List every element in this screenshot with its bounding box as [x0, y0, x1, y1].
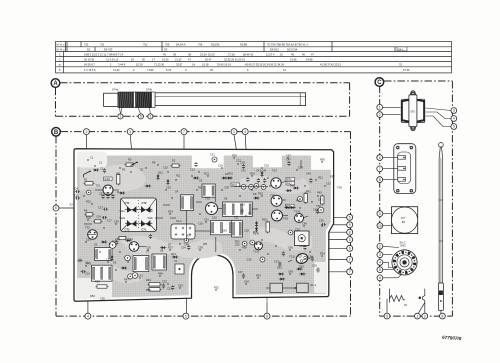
- trimmer E3: [254, 183, 259, 188]
- loudspeaker S77: [392, 207, 418, 234]
- svg-text:C39: C39: [240, 161, 245, 165]
- svg-text:R21: R21: [318, 176, 323, 180]
- resistor R44: [119, 237, 126, 240]
- svg-text:D9 D12: D9 D12: [270, 47, 279, 51]
- svg-text:C65: C65: [288, 270, 293, 274]
- capacitor C11: [194, 162, 197, 167]
- diode D10: [127, 239, 130, 242]
- terminal on C left border 10: [377, 260, 383, 266]
- svg-text:S11: S11: [234, 216, 239, 220]
- transistor TS3: [129, 242, 139, 252]
- svg-text:7: 7: [183, 130, 185, 134]
- leader from left terminal 6: [59, 207, 90, 209]
- svg-text:1: 1: [379, 106, 381, 110]
- diode D14: [255, 222, 258, 225]
- printed circuit board outline: [74, 149, 334, 301]
- svg-text:7D 75A 75B-3B 75A 5A-B 75A V: 7D 75A 75B-3B 75A 5A-B 75A VL-1: [267, 42, 309, 46]
- terminal 5 of rod: [138, 114, 143, 119]
- svg-text:C63: C63: [178, 284, 183, 288]
- svg-text:C61: C61: [106, 258, 111, 262]
- svg-text:8: 8: [441, 314, 443, 318]
- terminal 3 on top border: [127, 129, 133, 135]
- leader to bottom terminal 5: [185, 246, 187, 313]
- section A chain border left: [55, 88, 57, 117]
- svg-text:23.24, 25.29: 23.24, 25.29: [200, 52, 215, 56]
- resistor R2: [172, 164, 179, 167]
- diode D13: [173, 256, 176, 259]
- trimmer E5: [212, 157, 217, 162]
- extra reference labels: [86, 154, 331, 290]
- svg-text:5: 5: [453, 125, 455, 129]
- svg-text:R54: R54: [320, 252, 325, 256]
- svg-text:9: 9: [379, 212, 381, 216]
- trimmer R46: [128, 274, 133, 279]
- capacitor C33: [162, 283, 165, 288]
- leads from connector: [383, 156, 398, 158]
- svg-text:6: 6: [379, 276, 381, 280]
- trimmer E8: [242, 241, 247, 246]
- svg-text:1: 1: [119, 115, 121, 119]
- svg-text:41.38.37.42.23.12: 41.38.37.42.23.12: [320, 63, 341, 67]
- capacitor C8: [106, 194, 109, 199]
- svg-text:8: 8: [349, 230, 351, 234]
- svg-text:SK2: SK2: [222, 229, 227, 233]
- svg-text:D3: D3: [164, 47, 168, 51]
- section C chain border bottom: [380, 315, 453, 317]
- capacitor C9: [101, 194, 104, 199]
- diode D22: [111, 256, 114, 259]
- svg-text:S76: S76: [410, 110, 415, 114]
- svg-text:C13: C13: [98, 206, 103, 210]
- svg-text:C9: C9: [99, 192, 103, 196]
- terminal on C right border 2: [451, 116, 457, 122]
- svg-text:M2: M2: [186, 234, 190, 238]
- svg-text:8Ω: 8Ω: [402, 220, 405, 224]
- diode D23: [122, 267, 125, 270]
- capacitor C2: [103, 168, 106, 173]
- svg-text:1: 1: [233, 130, 235, 134]
- svg-text:MHz: MHz: [57, 48, 66, 52]
- rotary switch SK-C: [392, 250, 417, 275]
- svg-text:19.20: 19.20: [162, 57, 169, 61]
- resistor R41: [304, 194, 307, 203]
- terminal 7 on top border: [181, 129, 187, 135]
- svg-text:2: 2: [424, 314, 426, 318]
- svg-text:C7L: C7L: [142, 227, 147, 231]
- resistor R42 label: [286, 181, 295, 185]
- trimmer C16b: [109, 242, 116, 249]
- leader from terminal 4: [245, 135, 247, 178]
- svg-text:D10/29: D10/29: [211, 42, 220, 46]
- capacitor C4: [75, 190, 80, 193]
- svg-text:D9: D9: [253, 192, 257, 196]
- battery 9V with resistor symbol: [387, 289, 405, 313]
- svg-text:TS12: TS12: [253, 250, 260, 254]
- svg-text:37 36: 37 36: [403, 68, 410, 72]
- svg-text:R1: R1: [84, 178, 88, 182]
- capacitor C56: [311, 256, 314, 261]
- terminal on C left border 1: [377, 104, 383, 110]
- trimmer R30: [260, 257, 265, 262]
- table row 5 entries: [84, 63, 402, 67]
- svg-text:S: S: [59, 68, 61, 72]
- capacitor C45: [316, 209, 319, 214]
- section A chain border right: [349, 83, 351, 117]
- svg-text:R2: R2: [122, 168, 126, 172]
- svg-text:R57: R57: [330, 175, 335, 179]
- terminal 1b of rod: [148, 114, 153, 119]
- svg-text:1: 1: [149, 115, 151, 119]
- IF transformer S3: [202, 184, 215, 197]
- section C chain border left: [379, 86, 381, 317]
- svg-text:71.13.30: 71.13.30: [154, 63, 165, 67]
- terminal 5 on bottom border: [183, 313, 189, 319]
- svg-text:D53: D53: [299, 265, 304, 269]
- svg-text:R5: R5: [128, 158, 132, 162]
- part M31 label: [231, 183, 240, 187]
- capacitor C27: [149, 234, 152, 239]
- svg-text:C4: C4: [75, 187, 79, 191]
- capacitor C18: [102, 216, 107, 219]
- svg-text:54.28 8.7: 54.28 8.7: [84, 63, 95, 67]
- svg-text:D4,54-A: D4,54-A: [176, 42, 186, 46]
- svg-text:C28: C28: [244, 229, 249, 233]
- transistor TS9: [272, 210, 283, 221]
- svg-text:W2b: W2b: [148, 216, 154, 220]
- svg-text:W1b: W1b: [148, 209, 154, 213]
- svg-text:S6: S6: [113, 261, 117, 265]
- transistor TS10: [295, 214, 304, 223]
- IF transformer S7: [133, 256, 149, 272]
- leader from terminal 1: [234, 135, 240, 173]
- svg-text:S3: S3: [70, 203, 74, 207]
- svg-text:C53: C53: [295, 228, 300, 232]
- svg-text:S4-A: S4-A: [176, 219, 182, 223]
- svg-text:CT1: CT1: [125, 201, 130, 205]
- resistor R35: [266, 222, 270, 232]
- diode D48: [287, 189, 290, 192]
- diode D3: [102, 241, 105, 244]
- terminal on C bottom border 4: [440, 313, 446, 319]
- section C chain border right: [451, 81, 453, 316]
- svg-text:C18: C18: [96, 215, 101, 219]
- resistor R39 label: [286, 204, 295, 208]
- terminal on C left border 9: [377, 252, 383, 258]
- svg-text:CT2: CT2: [142, 201, 147, 205]
- diode D12: [157, 175, 160, 178]
- svg-text:R24: R24: [198, 186, 203, 190]
- svg-text:A: A: [53, 81, 58, 87]
- diode D1: [223, 177, 226, 180]
- leader to bottom terminal 8: [266, 302, 268, 314]
- trimmer E2: [249, 185, 254, 190]
- press stud contact: [419, 289, 425, 313]
- table row 3 entries: [84, 52, 314, 56]
- svg-text:R47: R47: [124, 278, 129, 282]
- svg-text:RL-1: RL-1: [311, 283, 317, 287]
- diode D19: [194, 177, 197, 180]
- svg-text:TS2: TS2: [85, 226, 90, 230]
- svg-text:8: 8: [266, 314, 268, 318]
- svg-text:TS10: TS10: [294, 210, 301, 214]
- capacitor C42: [246, 177, 249, 182]
- svg-text:R52: R52: [214, 286, 219, 290]
- svg-text:R45: R45: [317, 191, 322, 195]
- svg-text:R40: R40: [296, 199, 301, 203]
- svg-text:R18: R18: [250, 172, 255, 176]
- svg-text:C: C: [59, 53, 61, 57]
- terminal 2 on top border: [83, 129, 89, 135]
- svg-text:W2B: W2B: [104, 177, 110, 181]
- resistor R32 label: [286, 177, 295, 181]
- svg-text:C2: C2: [100, 167, 104, 171]
- resistor R5: [126, 163, 133, 166]
- svg-text:10: 10: [378, 224, 382, 228]
- section label C: [375, 78, 384, 87]
- section B chain border bottom: [56, 315, 351, 317]
- diode D8: [291, 206, 294, 209]
- terminal 8 on bottom border: [264, 313, 270, 319]
- svg-text:R13: R13: [204, 172, 209, 176]
- svg-text:C37: C37: [238, 270, 243, 274]
- table row 4 entries: [84, 57, 313, 61]
- trimmer C53: [295, 231, 310, 246]
- capacitor C39: [242, 164, 245, 169]
- svg-text:C10: C10: [163, 166, 168, 170]
- terminal on C left border 6: [377, 211, 383, 217]
- leader from terminal 3: [130, 134, 133, 163]
- svg-text:TS7: TS7: [272, 169, 277, 173]
- trimmer R40: [297, 196, 302, 201]
- svg-text:15.18: 15.18: [202, 63, 209, 67]
- svg-text:751: 751: [100, 42, 105, 46]
- svg-text:752: 752: [84, 42, 89, 46]
- svg-text:R22: R22: [86, 200, 91, 204]
- svg-text:S74a: S74a: [112, 88, 119, 92]
- table row 6 entries: [84, 68, 410, 72]
- PCB halftone copper area: [77, 156, 331, 299]
- svg-text:R3: R3: [117, 172, 121, 176]
- terminal on C bottom border 1: [384, 313, 390, 319]
- trimmer E1: [241, 184, 246, 189]
- svg-text:C60: C60: [288, 246, 293, 250]
- terminal 2 on right border: [347, 256, 353, 262]
- adjustment data table: [56, 42, 452, 73]
- svg-text:C22: C22: [236, 159, 241, 163]
- svg-text:C56: C56: [308, 255, 313, 259]
- svg-text:1 3 16 5 6: 1 3 16 5 6: [84, 68, 96, 72]
- svg-text:C32: C32: [326, 182, 331, 186]
- terminal 4 on top border: [242, 129, 248, 135]
- leader from terminal 2 to switch S1: [85, 135, 87, 172]
- table row 1 entries: [84, 42, 309, 46]
- svg-text:3: 3: [453, 109, 455, 113]
- section A chain border bottom: [56, 115, 350, 117]
- svg-text:R31: R31: [248, 212, 253, 216]
- svg-text:C54: C54: [299, 244, 304, 248]
- svg-text:D50: D50: [90, 294, 95, 298]
- svg-text:R34: R34: [112, 240, 117, 244]
- svg-text:756: 756: [198, 42, 203, 46]
- svg-text:C31: C31: [210, 153, 215, 157]
- svg-text:C53: C53: [86, 238, 91, 242]
- terminal 8 on right border: [347, 229, 353, 235]
- svg-text:8 75: 8 75: [166, 68, 172, 72]
- svg-text:C67: C67: [286, 154, 291, 158]
- svg-text:C1: C1: [99, 161, 103, 165]
- svg-text:R11: R11: [176, 174, 181, 178]
- terminal on C right border 3: [451, 124, 457, 130]
- svg-text:C15: C15: [190, 168, 195, 172]
- section B chain border left: [55, 136, 57, 316]
- leader to bottom terminal 4: [87, 289, 89, 313]
- svg-text:4 144: 4 144: [113, 68, 120, 72]
- svg-text:8: 8: [379, 178, 381, 182]
- transistor TS8: [271, 195, 282, 206]
- svg-text:S77: S77: [401, 216, 406, 220]
- terminal on C left border 8: [377, 243, 383, 249]
- svg-text:C42: C42: [241, 169, 246, 173]
- capacitor C57: [278, 261, 281, 266]
- svg-text:C25: C25: [264, 164, 269, 168]
- diode D21: [294, 187, 297, 190]
- transistor TS5: [206, 203, 218, 215]
- svg-text:R53: R53: [256, 274, 261, 278]
- svg-text:S9: S9: [224, 197, 228, 201]
- svg-text:C7: C7: [109, 192, 113, 196]
- leader to right terminal 6: [320, 247, 347, 249]
- svg-text:R41: R41: [306, 190, 311, 194]
- terminal 5 on right border: [347, 214, 353, 220]
- capacitor C50: [321, 223, 326, 226]
- capacitor C7: [111, 194, 114, 199]
- antenna coil S74b bobbin: [136, 92, 152, 108]
- trimmer TS6: [318, 207, 324, 213]
- svg-text:MHz: MHz: [57, 43, 66, 47]
- svg-text:R35: R35: [262, 218, 267, 222]
- svg-text:C45: C45: [114, 220, 119, 224]
- leader from terminal 7: [183, 134, 185, 196]
- svg-text:5.88 3 10.8 2 13 11.7 WH6-8 T: 5.88 3 10.8 2 13 11.7 WH6-8 T1-4: [84, 52, 124, 56]
- terminal 6 on left border: [53, 205, 59, 211]
- svg-text:X1: X1: [174, 259, 178, 263]
- svg-text:S74b: S74b: [146, 87, 153, 91]
- svg-text:TS6: TS6: [316, 204, 321, 208]
- svg-text:W2a: W2a: [120, 216, 126, 220]
- svg-text:R16: R16: [228, 172, 233, 176]
- svg-text:12.4,16.15: 12.4,16.15: [106, 57, 119, 61]
- svg-text:10 29: 10 29: [136, 63, 143, 67]
- terminal on C left border 5: [377, 177, 383, 183]
- svg-text:R28: R28: [86, 216, 91, 220]
- switch S1: [84, 172, 90, 175]
- svg-text:W1a: W1a: [120, 209, 126, 213]
- terminal on C left border 2: [377, 112, 383, 118]
- svg-text:S3: S3: [199, 179, 203, 183]
- svg-text:R37: R37: [168, 246, 173, 250]
- leads from transformer left: [383, 106, 401, 108]
- resistor R6: [86, 213, 93, 216]
- svg-text:C26: C26: [198, 222, 203, 226]
- svg-text:7: 7: [379, 167, 381, 171]
- svg-text:C52: C52: [312, 264, 317, 268]
- svg-text:C45: C45: [313, 208, 318, 212]
- tuning gang capacitor CT1/CT2: [121, 198, 157, 232]
- capacitor C24: [115, 240, 118, 245]
- ferrite rod left end cap: [104, 93, 118, 106]
- svg-text:9V: 9V: [404, 303, 407, 307]
- diode D15: [255, 228, 258, 231]
- svg-text:C36: C36: [247, 258, 252, 262]
- antenna coil S74a bobbin: [118, 92, 155, 108]
- capacitor C16: [81, 270, 86, 273]
- terminal on C bottom border 3: [422, 313, 428, 319]
- svg-text:755: 755: [165, 42, 170, 46]
- svg-text:C1: C1: [90, 156, 94, 160]
- transistor TS7: [271, 178, 281, 188]
- svg-text:TS9: TS9: [283, 217, 288, 221]
- svg-text:C59: C59: [198, 246, 203, 250]
- IF transformer S5: [95, 248, 113, 261]
- svg-text:TS5: TS5: [205, 197, 210, 201]
- svg-text:2: 2: [379, 113, 381, 117]
- svg-text:5: 5: [140, 115, 142, 119]
- white board cutouts: [76, 152, 327, 300]
- svg-text:B: B: [54, 130, 59, 136]
- leader wires from coils: [119, 108, 122, 114]
- capacitor C43: [257, 178, 260, 183]
- trimmer C48b: [125, 255, 131, 261]
- terminal 9 on right border: [347, 222, 353, 228]
- diode D51: [279, 273, 282, 276]
- terminal on C left border 11: [377, 267, 383, 273]
- leader to right terminal 8: [326, 231, 347, 233]
- svg-text:9: 9: [349, 223, 351, 227]
- diode D54: [301, 273, 304, 276]
- IF transformer S11: [231, 221, 242, 238]
- svg-text:7: 7: [349, 270, 351, 274]
- svg-text:C41: C41: [318, 198, 323, 202]
- svg-text:58 49 42: 58 49 42: [243, 52, 254, 56]
- capacitor C48: [187, 245, 190, 250]
- capacitor C44: [263, 178, 266, 183]
- svg-text:D13: D13: [171, 252, 176, 256]
- terminal on C right border 1: [451, 108, 457, 114]
- svg-text:4: 4: [87, 314, 89, 318]
- leads from transformer right: [426, 108, 452, 111]
- diode D9: [255, 197, 258, 200]
- diode D16: [94, 169, 97, 172]
- filter block FL-1: [270, 283, 282, 292]
- svg-text:2: 2: [349, 258, 351, 262]
- svg-text:CT3: CT3: [125, 227, 130, 231]
- svg-text:C50: C50: [319, 219, 324, 223]
- svg-text:36 14 55: 36 14 55: [84, 57, 95, 61]
- svg-text:C33: C33: [162, 280, 167, 284]
- svg-text:R38: R38: [242, 246, 247, 250]
- svg-text:W5: W5: [203, 242, 207, 246]
- svg-text:3: 3: [349, 238, 351, 242]
- svg-text:R56: R56: [320, 158, 325, 162]
- section C chain border top: [384, 80, 452, 82]
- IF transformer S4: [181, 195, 194, 211]
- svg-text:M32: M32: [401, 244, 407, 248]
- resistor R45: [321, 196, 324, 204]
- transistor TS2: [88, 230, 98, 240]
- capacitor C47: [287, 161, 290, 166]
- svg-text:C62: C62: [138, 274, 143, 278]
- svg-text:TS4: TS4: [128, 237, 133, 241]
